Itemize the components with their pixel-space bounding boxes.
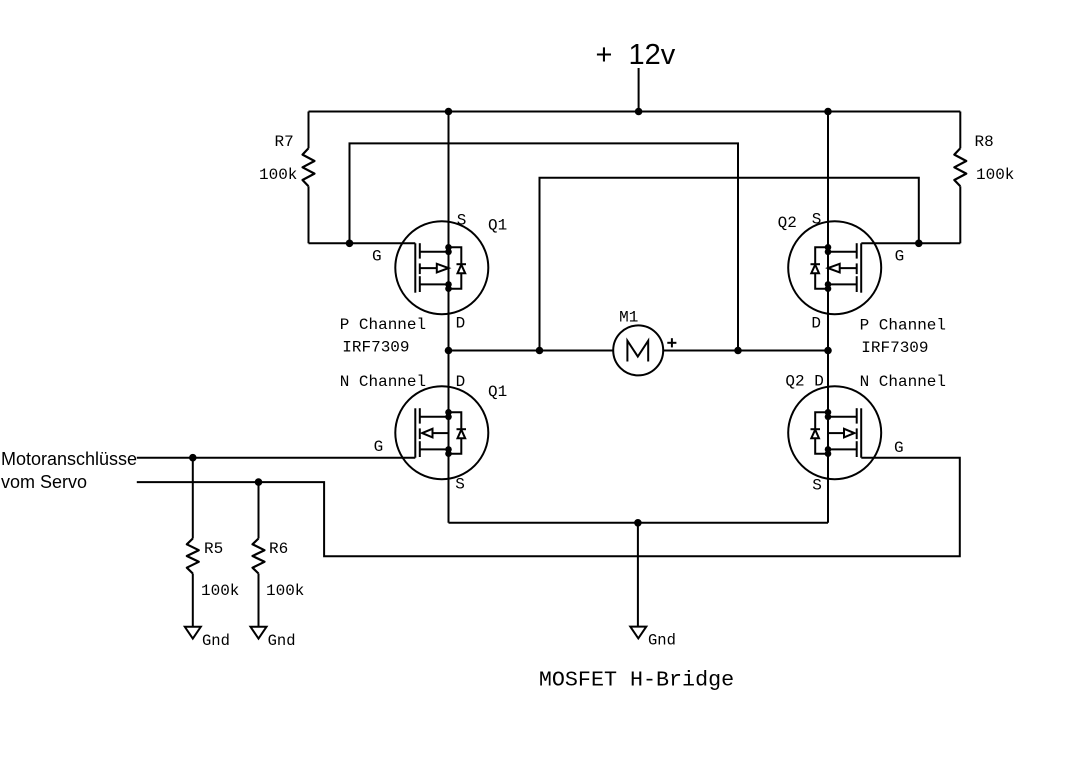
label R6 [269, 540, 288, 558]
label 100k (R8) [976, 166, 1014, 184]
pin G label (Q2 bottom) [894, 439, 904, 457]
wire left leg (Q1 source-drain column) [448, 112, 450, 523]
junction top rail / Q1 source [445, 108, 453, 116]
ground (center) [630, 627, 646, 639]
svg-text:IRF7309: IRF7309 [342, 339, 409, 357]
label Q2 (top) [778, 214, 797, 232]
svg-text:100k: 100k [259, 166, 297, 184]
junction servo 2 / R6 [255, 478, 263, 486]
transistor Q2 (N-channel bottom-right) [788, 386, 881, 479]
resistor R7 [303, 112, 315, 244]
junction bottom rail / ground stub [634, 519, 642, 527]
svg-text:D: D [811, 314, 821, 332]
junction top rail / +12v stub [635, 108, 643, 116]
svg-text:S: S [455, 476, 465, 494]
wire servo input 1 (to Q1 bottom gate) [137, 457, 416, 459]
ground (R6) [251, 627, 267, 639]
label M1 [619, 309, 638, 327]
label R7 [275, 133, 294, 151]
transistor Q2 (P-channel top-right) [788, 221, 881, 314]
wire motor right [663, 350, 828, 352]
label Motoranschlüsse [1, 449, 137, 469]
junction top rail / Q2 source [824, 108, 832, 116]
junction motor wire / left leg [445, 347, 453, 355]
motor M1 [613, 325, 663, 375]
svg-text:S: S [812, 210, 822, 228]
pin D label (Q1 top) [456, 315, 466, 333]
wire top +12v rail [309, 111, 961, 113]
svg-text:R7: R7 [275, 133, 294, 151]
svg-text:G: G [374, 438, 384, 456]
label 100k (R5) [201, 582, 239, 600]
svg-text:Q1: Q1 [488, 217, 507, 235]
svg-text:IRF7309: IRF7309 [861, 339, 928, 357]
label R8 [975, 133, 994, 151]
resistor R5 [187, 458, 199, 627]
svg-text:100k: 100k [201, 582, 239, 600]
resistor R8 [954, 112, 966, 244]
label Q1 (bottom) [488, 383, 507, 401]
resistor R6 [253, 482, 265, 627]
pin G label (Q2 top) [895, 247, 905, 265]
svg-text:S: S [457, 211, 467, 229]
wire cross-coupling A (Q1 gate to right motor node) [350, 143, 739, 350]
label Gnd (R6) [268, 632, 296, 650]
svg-text:N Channel: N Channel [340, 373, 426, 391]
wire servo input 2 (to Q2 bottom gate) [137, 458, 960, 557]
pin D label (Q1 bottom) [456, 373, 466, 391]
svg-text:G: G [372, 248, 382, 266]
wire bottom source rail [449, 522, 829, 524]
svg-text:P Channel: P Channel [860, 316, 946, 334]
pin S label (Q2 bottom) [812, 477, 822, 495]
label P Channel (right) [860, 316, 946, 334]
svg-text:R5: R5 [204, 540, 223, 558]
svg-text:R6: R6 [269, 540, 288, 558]
svg-text:100k: 100k [266, 582, 304, 600]
svg-text:S: S [812, 477, 822, 495]
svg-text:vom Servo: vom Servo [1, 472, 87, 492]
svg-text:Motoranschlüsse: Motoranschlüsse [1, 449, 137, 469]
label Q2 D (bottom) [785, 372, 823, 390]
svg-text:G: G [895, 247, 905, 265]
wire right leg (Q2 source-drain column) [827, 112, 829, 523]
label +12v [596, 39, 676, 71]
wire motor left [449, 350, 614, 352]
junction Q1 gate / cross-coupling [346, 240, 354, 248]
label vom Servo [1, 472, 87, 492]
label IRF7309 (left) [342, 339, 409, 357]
junction cross A / motor wire [734, 347, 742, 355]
svg-text:Q2 D: Q2 D [785, 372, 823, 390]
pin D label (Q2 top) [811, 314, 821, 332]
svg-text:Q2: Q2 [778, 214, 797, 232]
junction Q2 gate / cross-coupling [915, 240, 923, 248]
title MOSFET H-Bridge [539, 668, 734, 693]
motor + polarity mark [667, 338, 676, 347]
svg-text:Gnd: Gnd [648, 632, 676, 650]
pin S label (Q1 bottom) [455, 476, 465, 494]
net +12v supply stub [638, 68, 640, 112]
label 100k (R6) [266, 582, 304, 600]
svg-text:M1: M1 [619, 309, 638, 327]
label Gnd (center) [648, 632, 676, 650]
ground (R5) [185, 627, 201, 639]
wire center ground stub [637, 523, 639, 627]
transistor Q1 (P-channel top-left) [395, 221, 488, 314]
pin G label (Q1 bottom) [374, 438, 384, 456]
svg-text:P Channel: P Channel [340, 316, 426, 334]
svg-text:D: D [456, 315, 466, 333]
pin S label (Q2 top) [812, 210, 822, 228]
wire Q2 top gate [861, 242, 960, 244]
svg-text:Q1: Q1 [488, 383, 507, 401]
label Gnd (R5) [202, 632, 230, 650]
wire Q1 top gate [309, 242, 416, 244]
label N Channel (left) [340, 373, 426, 391]
wire cross-coupling B (Q2 gate to left motor node) [540, 178, 919, 351]
label Q1 (top) [488, 217, 507, 235]
label N Channel (right) [860, 373, 946, 391]
label P Channel (left) [340, 316, 426, 334]
svg-text:N Channel: N Channel [860, 373, 946, 391]
label R5 [204, 540, 223, 558]
pin G label (Q1 top) [372, 248, 382, 266]
svg-text:100k: 100k [976, 166, 1014, 184]
svg-text:G: G [894, 439, 904, 457]
pin S label (Q1 top) [457, 211, 467, 229]
svg-text:Gnd: Gnd [202, 632, 230, 650]
label 100k (R7) [259, 166, 297, 184]
svg-text:R8: R8 [975, 133, 994, 151]
svg-text:MOSFET H-Bridge: MOSFET H-Bridge [539, 668, 734, 693]
junction servo 1 / R5 [189, 454, 197, 462]
svg-text:D: D [456, 373, 466, 391]
junction motor wire / right leg [824, 347, 832, 355]
junction cross B / motor wire [536, 347, 544, 355]
label IRF7309 (right) [861, 339, 928, 357]
svg-text:Gnd: Gnd [268, 632, 296, 650]
transistor Q1 (N-channel bottom-left) [395, 386, 488, 479]
svg-text:+ 12v: + 12v [596, 39, 676, 71]
